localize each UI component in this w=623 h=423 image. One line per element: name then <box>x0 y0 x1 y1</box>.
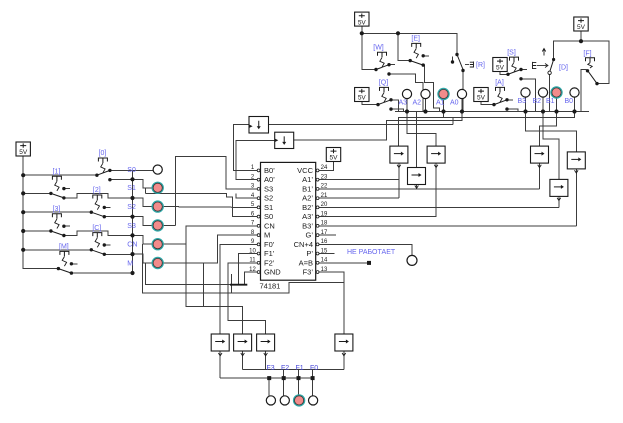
svg-text:B1: B1 <box>546 98 555 105</box>
svg-text:F1’: F1’ <box>264 249 275 258</box>
svg-text:A3’: A3’ <box>302 212 313 221</box>
svg-text:VCC: VCC <box>297 166 313 175</box>
svg-text:S0: S0 <box>264 212 273 221</box>
svg-text:11: 11 <box>249 258 256 264</box>
svg-text:19: 19 <box>321 211 328 217</box>
svg-text:16: 16 <box>321 239 328 245</box>
svg-text:НЕ РАБОТАЕТ: НЕ РАБОТАЕТ <box>347 249 396 256</box>
svg-text:S3: S3 <box>127 223 136 230</box>
svg-text:B2: B2 <box>533 98 542 105</box>
svg-text:[C]: [C] <box>92 225 101 232</box>
svg-text:20: 20 <box>321 202 328 208</box>
svg-text:M: M <box>264 231 270 240</box>
svg-text:P’: P’ <box>306 249 313 258</box>
svg-text:5V: 5V <box>496 65 505 72</box>
svg-text:A2: A2 <box>413 100 422 107</box>
svg-text:CN: CN <box>127 242 137 249</box>
svg-text:10: 10 <box>249 248 256 254</box>
svg-text:F1: F1 <box>296 365 304 372</box>
svg-text:F3: F3 <box>267 365 275 372</box>
svg-text:[S]: [S] <box>507 49 516 56</box>
svg-text:[D]: [D] <box>559 65 568 72</box>
svg-text:A0: A0 <box>450 100 459 107</box>
svg-text:12: 12 <box>249 267 256 273</box>
svg-text:CN: CN <box>264 221 275 230</box>
svg-text:B1’: B1’ <box>302 184 313 193</box>
svg-text:21: 21 <box>321 193 328 199</box>
svg-text:B3’: B3’ <box>302 221 313 230</box>
svg-text:[A]: [A] <box>495 80 504 87</box>
svg-text:[0]: [0] <box>99 150 107 157</box>
svg-text:13: 13 <box>321 267 328 273</box>
svg-text:M: M <box>127 260 133 267</box>
svg-text:5V: 5V <box>330 155 339 162</box>
svg-text:5V: 5V <box>358 19 367 26</box>
svg-text:S2: S2 <box>127 204 136 211</box>
svg-text:24: 24 <box>321 165 328 171</box>
svg-text:A3: A3 <box>399 100 408 107</box>
svg-text:[W]: [W] <box>373 45 384 52</box>
svg-text:B0: B0 <box>565 98 574 105</box>
svg-text:[1]: [1] <box>53 168 61 175</box>
svg-text:S3: S3 <box>264 184 273 193</box>
svg-text:A1’: A1’ <box>302 175 313 184</box>
svg-text:F2’: F2’ <box>264 258 275 267</box>
svg-text:S2: S2 <box>264 194 273 203</box>
svg-text:5V: 5V <box>577 24 586 31</box>
svg-text:[R]: [R] <box>476 62 485 69</box>
svg-text:5V: 5V <box>477 95 486 102</box>
svg-text:[3]: [3] <box>53 206 61 213</box>
svg-text:[2]: [2] <box>93 187 101 194</box>
svg-text:74181: 74181 <box>260 282 281 291</box>
svg-text:23: 23 <box>321 174 328 180</box>
svg-text:F3’: F3’ <box>303 268 314 277</box>
svg-text:S0: S0 <box>127 167 136 174</box>
svg-text:[F]: [F] <box>583 50 591 57</box>
svg-text:F0’: F0’ <box>264 240 275 249</box>
svg-text:[E]: [E] <box>411 36 420 43</box>
svg-text:A0’: A0’ <box>264 175 275 184</box>
svg-text:5V: 5V <box>358 95 367 102</box>
svg-text:A=B: A=B <box>299 258 313 267</box>
svg-text:22: 22 <box>321 184 328 190</box>
svg-text:5V: 5V <box>19 149 28 156</box>
svg-text:B0’: B0’ <box>264 166 275 175</box>
svg-text:S1: S1 <box>127 185 136 192</box>
svg-text:A2’: A2’ <box>302 194 313 203</box>
svg-text:S1: S1 <box>264 203 273 212</box>
svg-text:[M]: [M] <box>59 244 69 251</box>
svg-text:18: 18 <box>321 221 328 227</box>
svg-text:15: 15 <box>321 248 328 254</box>
svg-text:A1: A1 <box>436 100 445 107</box>
svg-text:CN+4: CN+4 <box>294 240 313 249</box>
svg-text:14: 14 <box>321 258 328 264</box>
svg-text:F0: F0 <box>310 365 318 372</box>
svg-text:B3: B3 <box>518 98 527 105</box>
svg-text:17: 17 <box>321 230 328 236</box>
svg-text:GND: GND <box>264 268 281 277</box>
svg-text:[Q]: [Q] <box>379 80 388 87</box>
svg-text:F2: F2 <box>281 365 289 372</box>
svg-text:G’: G’ <box>306 231 314 240</box>
svg-text:B2’: B2’ <box>302 203 313 212</box>
